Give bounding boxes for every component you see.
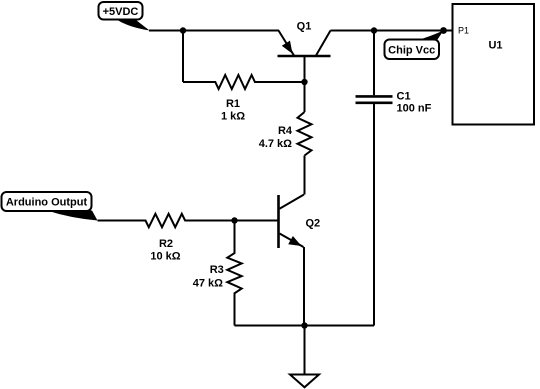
capacitor C1 plates: [356, 95, 393, 98]
node label pointer: [418, 31, 444, 41]
wire Q2 emitter to bottom rail: [303, 247, 305, 326]
resistor R2 with base wire: [98, 214, 278, 227]
transistor Q2 (NPN) base bar: [277, 195, 280, 248]
svg-text:R3: R3: [210, 264, 224, 276]
transistor Q2 emitter arrowhead: [288, 236, 301, 246]
svg-text:+5VDC: +5VDC: [103, 6, 139, 18]
transistor Q1 emitter arrowhead: [282, 41, 293, 54]
IC U1 box: [453, 4, 535, 125]
svg-text:Q1: Q1: [297, 21, 312, 33]
node junction ground: [301, 322, 307, 328]
svg-text:Chip Vcc: Chip Vcc: [388, 45, 435, 57]
node label pointer: [47, 211, 98, 221]
transistor Q2 collector lead: [280, 195, 305, 209]
wire bottom rail: [235, 325, 375, 327]
power label pointer: [116, 19, 150, 30]
node junction R1 / Q1 base: [301, 79, 307, 85]
svg-text:1 kΩ: 1 kΩ: [221, 111, 245, 123]
resistor R3: [227, 221, 241, 326]
svg-text:P1: P1: [458, 26, 469, 36]
capacitor C1 bottom lead: [373, 104, 375, 326]
node label Arduino Output callout box: [2, 192, 92, 211]
svg-text:47 kΩ: 47 kΩ: [193, 278, 223, 290]
ground stem wire: [304, 326, 306, 375]
transistor Q1 base lead: [304, 56, 306, 112]
resistor R4: [298, 112, 312, 156]
wire top rail left (+5V to Q1 emitter): [149, 30, 279, 32]
svg-text:R4: R4: [278, 125, 293, 137]
node junction on +5V rail: [180, 27, 186, 33]
svg-text:Arduino Output: Arduino Output: [6, 197, 88, 209]
svg-text:100 nF: 100 nF: [397, 102, 432, 114]
node label Chip Vcc callout box: [385, 40, 440, 60]
capacitor C1 top lead: [373, 31, 375, 96]
transistor Q1 emitter lead: [279, 31, 295, 56]
svg-text:U1: U1: [488, 40, 502, 52]
transistor Q1 collector lead: [316, 31, 331, 56]
transistor Q2 emitter lead: [280, 234, 304, 248]
svg-text:R2: R2: [159, 238, 173, 250]
pin P1 node dot: [440, 27, 447, 34]
ground symbol: [290, 375, 319, 388]
transistor Q1 (PNP) base bar: [278, 55, 331, 58]
svg-text:C1: C1: [397, 90, 411, 102]
wire top rail right (Q1 collector to U1 pin): [331, 30, 453, 32]
svg-text:10 kΩ: 10 kΩ: [150, 251, 180, 263]
svg-text:R1: R1: [226, 98, 240, 110]
svg-text:Q2: Q2: [306, 218, 321, 230]
wire drop from +5V rail to R1: [182, 31, 184, 83]
power label +5VDC callout box: [99, 2, 143, 20]
wire R4 to Q2 collector: [304, 156, 306, 195]
svg-text:4.7 kΩ: 4.7 kΩ: [259, 138, 292, 150]
node junction R3 tap: [231, 217, 237, 223]
node junction C1 branch: [371, 27, 377, 33]
resistor R1: [183, 75, 305, 89]
